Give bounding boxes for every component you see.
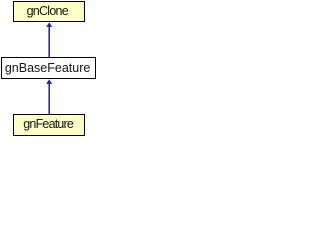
inheritance arrow gnFeature -> gnBaseFeature : stem — [48, 81, 50, 114]
label gnClone — [12, 4, 82, 18]
node gnClone (base class box) — [13, 1, 85, 22]
node gnFeature (derived class box) — [13, 114, 85, 136]
inheritance arrow gnFeature -> gnBaseFeature : head — [46, 79, 52, 84]
label gnBaseFeature — [1, 61, 95, 75]
inheritance arrow gnBaseFeature -> gnClone : stem — [48, 25, 50, 57]
arrows overlay — [0, 0, 98, 136]
inheritance arrow gnBaseFeature -> gnClone : head — [46, 22, 52, 27]
label gnFeature — [13, 117, 83, 131]
node gnBaseFeature (current class box) — [1, 57, 96, 79]
